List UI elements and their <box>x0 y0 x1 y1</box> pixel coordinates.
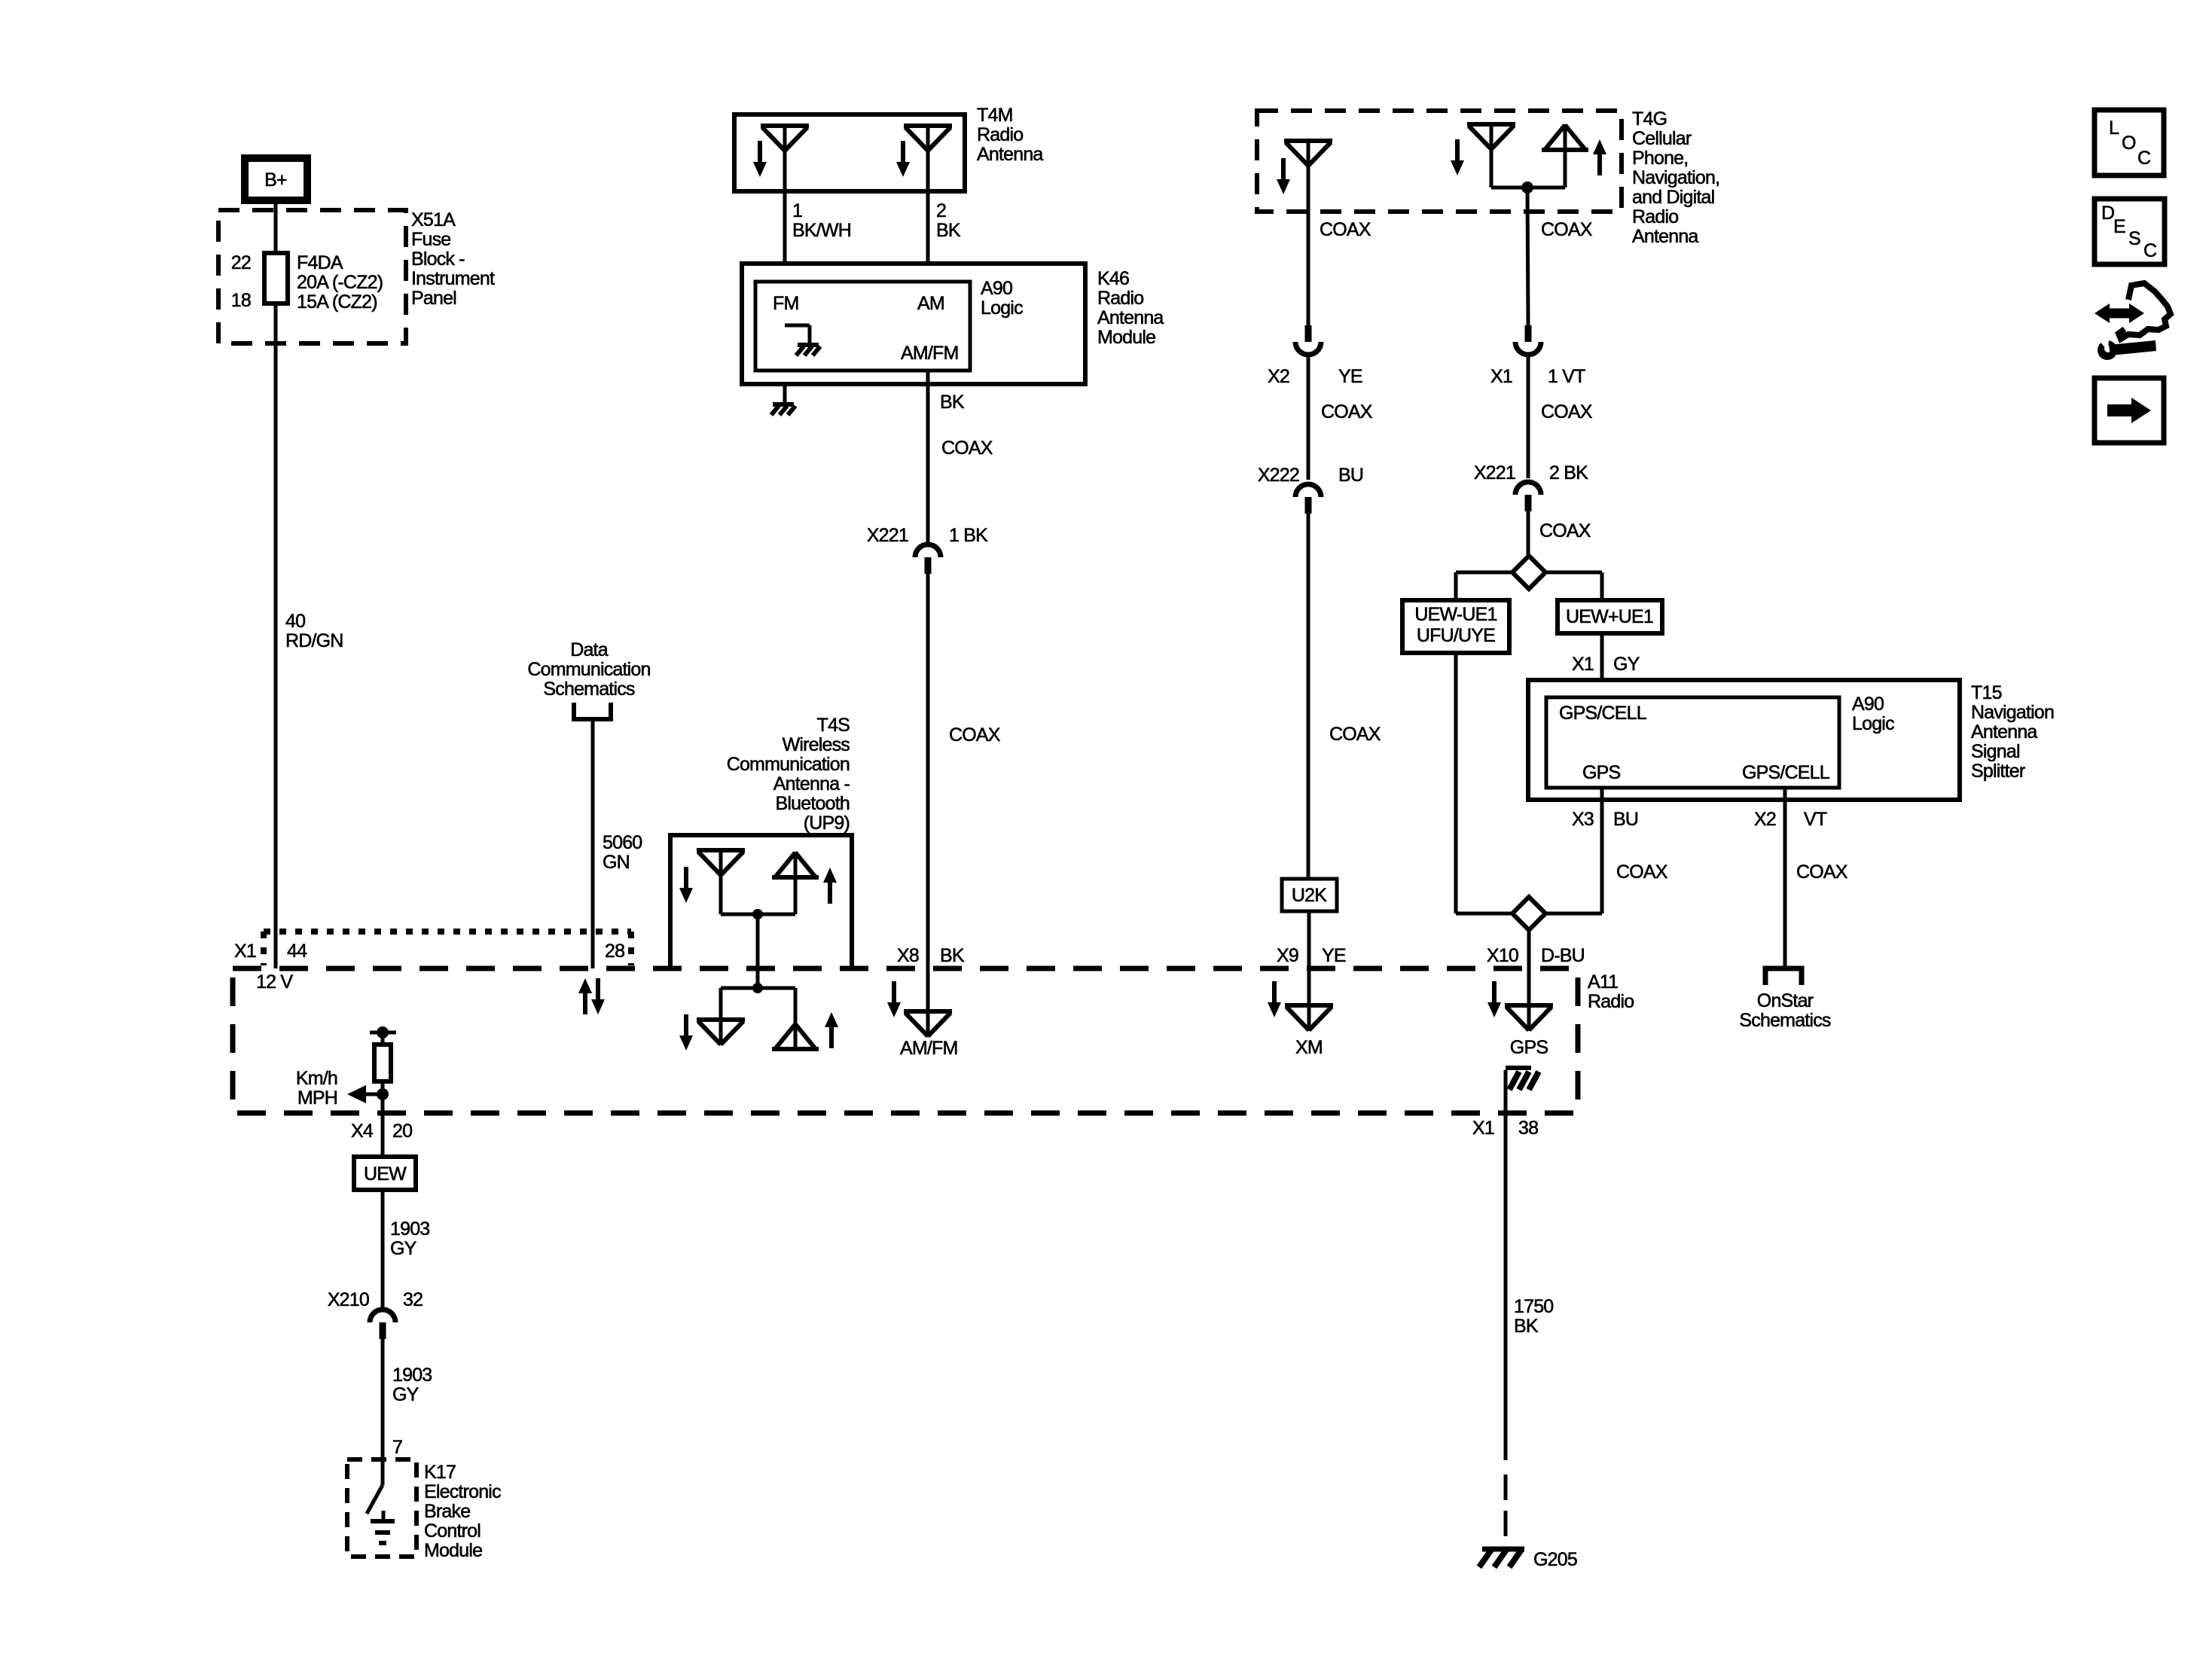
svg-text:Antenna: Antenna <box>1971 721 2037 743</box>
svg-text:S: S <box>2128 228 2140 249</box>
svg-text:U2K: U2K <box>1292 885 1327 906</box>
svg-text:Km/h: Km/h <box>296 1068 337 1089</box>
svg-text:Navigation: Navigation <box>1971 702 2054 723</box>
svg-text:COAX: COAX <box>1539 520 1591 541</box>
svg-text:GPS/CELL: GPS/CELL <box>1559 703 1647 724</box>
svg-text:38: 38 <box>1518 1118 1538 1139</box>
svg-text:20: 20 <box>392 1121 412 1142</box>
svg-text:Antenna -: Antenna - <box>773 773 850 794</box>
svg-text:Radio: Radio <box>1097 288 1143 309</box>
svg-text:T4G: T4G <box>1632 108 1667 130</box>
svg-text:Schematics: Schematics <box>1739 1010 1831 1031</box>
svg-text:X3: X3 <box>1572 809 1594 830</box>
svg-text:7: 7 <box>392 1437 402 1458</box>
svg-text:COAX: COAX <box>1321 401 1373 422</box>
svg-text:Phone,: Phone, <box>1632 148 1688 169</box>
svg-text:O: O <box>2122 133 2136 154</box>
svg-text:C: C <box>2143 240 2157 261</box>
svg-text:X221: X221 <box>1474 462 1515 483</box>
svg-text:X2: X2 <box>1754 809 1776 830</box>
svg-text:UEW+UE1: UEW+UE1 <box>1566 606 1653 627</box>
svg-text:COAX: COAX <box>941 438 993 459</box>
svg-text:X10: X10 <box>1487 945 1518 966</box>
svg-text:G205: G205 <box>1533 1549 1577 1570</box>
svg-text:COAX: COAX <box>1796 862 1848 883</box>
svg-text:18: 18 <box>231 290 251 311</box>
svg-text:Logic: Logic <box>1852 713 1894 734</box>
svg-text:Bluetooth: Bluetooth <box>776 793 850 814</box>
svg-text:1 BK: 1 BK <box>949 525 988 546</box>
svg-text:MPH: MPH <box>297 1087 337 1109</box>
svg-text:AM/FM: AM/FM <box>900 1038 958 1059</box>
svg-text:GY: GY <box>392 1384 420 1405</box>
svg-text:BU: BU <box>1613 809 1638 830</box>
svg-text:COAX: COAX <box>1329 724 1381 745</box>
svg-text:Antenna: Antenna <box>1632 226 1698 247</box>
svg-text:D-BU: D-BU <box>1541 945 1585 966</box>
svg-text:2 BK: 2 BK <box>1549 462 1588 483</box>
svg-text:Antenna: Antenna <box>1097 307 1164 328</box>
svg-text:X221: X221 <box>867 525 908 546</box>
svg-text:D: D <box>2101 203 2114 224</box>
svg-text:and Digital: and Digital <box>1632 187 1714 208</box>
svg-text:X1: X1 <box>234 941 256 962</box>
svg-text:Splitter: Splitter <box>1971 761 2025 782</box>
svg-text:X9: X9 <box>1277 945 1298 966</box>
svg-text:Navigation,: Navigation, <box>1632 167 1719 188</box>
svg-text:44: 44 <box>287 941 307 962</box>
svg-text:X1: X1 <box>1490 366 1512 387</box>
svg-text:BK: BK <box>936 220 961 241</box>
svg-text:FM: FM <box>773 293 799 314</box>
svg-text:X2: X2 <box>1268 366 1289 387</box>
svg-text:Panel: Panel <box>411 288 456 309</box>
svg-text:COAX: COAX <box>949 724 1001 746</box>
svg-text:(UP9): (UP9) <box>804 813 850 834</box>
svg-text:C: C <box>2137 148 2151 169</box>
svg-text:1903: 1903 <box>392 1365 432 1386</box>
svg-text:Radio: Radio <box>977 124 1023 145</box>
svg-text:F4DA: F4DA <box>297 252 343 273</box>
svg-text:2: 2 <box>936 200 946 221</box>
svg-text:T4M: T4M <box>977 105 1013 126</box>
svg-text:XM: XM <box>1295 1037 1323 1058</box>
svg-text:Communication: Communication <box>527 659 650 680</box>
svg-text:X51A: X51A <box>411 209 456 230</box>
svg-text:Electronic: Electronic <box>424 1481 501 1502</box>
svg-text:Data: Data <box>570 639 609 660</box>
svg-text:Radio: Radio <box>1632 206 1678 227</box>
svg-text:BK: BK <box>1514 1316 1539 1337</box>
svg-text:VT: VT <box>1804 809 1827 830</box>
svg-text:1903: 1903 <box>390 1218 429 1240</box>
svg-text:Control: Control <box>424 1520 481 1542</box>
svg-text:Antenna: Antenna <box>977 144 1043 165</box>
svg-text:GPS/CELL: GPS/CELL <box>1742 762 1830 783</box>
svg-text:BK/WH: BK/WH <box>792 220 851 241</box>
svg-text:Module: Module <box>1097 327 1155 348</box>
svg-text:1750: 1750 <box>1514 1296 1553 1317</box>
svg-text:28: 28 <box>605 941 624 962</box>
svg-text:L: L <box>2109 117 2119 139</box>
svg-text:Wireless: Wireless <box>783 734 850 755</box>
svg-text:40: 40 <box>285 611 305 632</box>
svg-text:Cellular: Cellular <box>1632 128 1692 149</box>
svg-text:X1: X1 <box>1572 654 1594 675</box>
svg-text:T4S: T4S <box>817 715 850 736</box>
svg-text:RD/GN: RD/GN <box>285 630 343 651</box>
svg-text:Schematics: Schematics <box>543 679 635 700</box>
svg-text:Signal: Signal <box>1971 741 2020 762</box>
svg-text:Block -: Block - <box>411 249 465 270</box>
svg-text:B+: B+ <box>264 169 287 191</box>
svg-text:YE: YE <box>1322 945 1346 966</box>
svg-text:Logic: Logic <box>981 297 1023 319</box>
svg-text:X222: X222 <box>1258 465 1299 486</box>
svg-text:GY: GY <box>1613 654 1640 675</box>
svg-text:20A (-CZ2): 20A (-CZ2) <box>297 272 383 293</box>
svg-text:GPS: GPS <box>1582 762 1621 783</box>
svg-text:1 VT: 1 VT <box>1548 366 1585 387</box>
svg-text:UFU/UYE: UFU/UYE <box>1417 625 1495 646</box>
svg-text:Module: Module <box>424 1540 482 1561</box>
svg-text:GY: GY <box>390 1238 417 1259</box>
svg-text:Instrument: Instrument <box>411 268 495 289</box>
svg-text:COAX: COAX <box>1320 219 1371 240</box>
svg-text:BK: BK <box>940 945 965 966</box>
svg-text:1: 1 <box>792 200 802 221</box>
svg-text:X1: X1 <box>1472 1118 1494 1139</box>
svg-text:Brake: Brake <box>424 1501 470 1522</box>
svg-text:OnStar: OnStar <box>1757 990 1814 1011</box>
svg-text:T15: T15 <box>1971 682 2002 703</box>
svg-text:GPS: GPS <box>1510 1037 1548 1058</box>
svg-text:YE: YE <box>1338 366 1362 387</box>
svg-text:COAX: COAX <box>1541 401 1593 422</box>
svg-text:BK: BK <box>940 392 965 413</box>
svg-text:X210: X210 <box>328 1289 369 1310</box>
svg-text:E: E <box>2113 216 2125 237</box>
svg-text:A90: A90 <box>981 278 1012 299</box>
svg-text:15A (CZ2): 15A (CZ2) <box>297 291 377 313</box>
svg-text:A11: A11 <box>1588 971 1618 993</box>
svg-text:22: 22 <box>231 252 251 273</box>
svg-text:A90: A90 <box>1852 694 1884 715</box>
svg-text:AM: AM <box>917 293 944 314</box>
svg-text:COAX: COAX <box>1616 862 1668 883</box>
svg-text:UEW-UE1: UEW-UE1 <box>1414 604 1497 625</box>
svg-text:X8: X8 <box>897 945 919 966</box>
svg-text:BU: BU <box>1338 465 1363 486</box>
svg-text:COAX: COAX <box>1541 219 1593 240</box>
svg-text:Fuse: Fuse <box>411 229 450 250</box>
svg-text:32: 32 <box>403 1289 423 1310</box>
svg-text:X4: X4 <box>351 1121 374 1142</box>
svg-text:K46: K46 <box>1097 268 1129 289</box>
svg-text:Radio: Radio <box>1588 991 1634 1012</box>
svg-text:AM/FM: AM/FM <box>901 343 959 364</box>
svg-text:12 V: 12 V <box>256 971 293 993</box>
svg-text:Communication: Communication <box>727 754 850 775</box>
svg-text:GN: GN <box>603 852 630 873</box>
svg-text:K17: K17 <box>424 1462 456 1483</box>
svg-text:UEW: UEW <box>364 1163 407 1185</box>
svg-text:5060: 5060 <box>603 832 642 853</box>
